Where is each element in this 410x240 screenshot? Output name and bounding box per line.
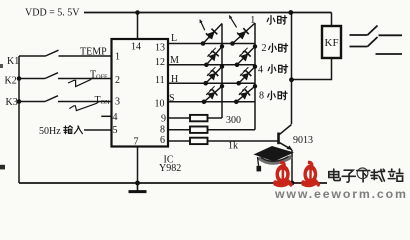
- wire right bus vertical: [291, 13, 293, 125]
- wire pin14 drop: [137, 13, 139, 40]
- svg-text:13: 13: [155, 43, 165, 54]
- svg-text:11: 11: [155, 75, 165, 86]
- label 2 hour shi: [279, 44, 288, 53]
- svg-text:14: 14: [131, 41, 141, 52]
- wire relay top branch: [331, 13, 333, 27]
- label 4 hour xiao: [268, 65, 276, 74]
- wire pin7 drop to ground: [137, 147, 139, 184]
- LED D1 emission arrow b: [206, 33, 211, 39]
- LED D6 (4h col2): [239, 67, 255, 84]
- watermark dian 电: [329, 169, 340, 180]
- wire relay contact 1 left lead: [350, 34, 368, 36]
- scan speck left edge 2: [0, 165, 5, 170]
- watermark tassel knob: [257, 166, 262, 172]
- IC U1 Y982 body: [112, 39, 169, 147]
- svg-text:M: M: [170, 55, 179, 66]
- resistor R3 (pin6) 1k: [190, 138, 208, 144]
- svg-text:1k: 1k: [228, 141, 238, 152]
- wire relay contact 2 left lead: [350, 46, 368, 48]
- node LED anode S1: [202, 100, 207, 105]
- switch contact 1 blade: [368, 26, 378, 36]
- wire pin6 to resistor R3: [168, 140, 190, 142]
- waveform symbol T_OFF sawtooth: [68, 79, 91, 86]
- LED D3 (2h col1): [206, 46, 222, 64]
- LED D2 emission arrow b: [237, 32, 242, 38]
- wire pin8 to resistor R2: [168, 129, 190, 131]
- wire transistor emitter drop: [291, 150, 293, 183]
- svg-text:3: 3: [115, 96, 120, 107]
- svg-text:8: 8: [160, 125, 165, 136]
- watermark registered mark: [357, 168, 368, 179]
- wire K1 switch lead: [19, 55, 46, 57]
- label 8 hour shi: [278, 91, 287, 100]
- node cathode c2-M: [253, 64, 257, 68]
- node VDD-pin14 junction: [135, 10, 140, 15]
- wire pin4 stub: [101, 115, 111, 117]
- wire K3 to pin3: [58, 101, 112, 103]
- watermark zi 子: [342, 170, 355, 182]
- wire 50Hz input to pin5: [84, 129, 112, 131]
- LED D5 (4h col1): [206, 67, 222, 84]
- wire row S pin10: [168, 101, 255, 103]
- svg-text:K1: K1: [7, 56, 19, 67]
- watermark cap head inner: [261, 157, 289, 162]
- wire resistor R2 to column 2: [208, 129, 256, 131]
- node LED anode H1: [203, 81, 208, 86]
- LED D4 (2h col2): [237, 46, 255, 64]
- watermark chong 2: [303, 162, 318, 184]
- wire relay contact 2 right lead: [376, 53, 403, 55]
- wire relay contact 1 right lead: [379, 34, 403, 36]
- wire row L pin13: [168, 43, 255, 45]
- svg-text:www.eeworm.com: www.eeworm.com: [274, 187, 408, 200]
- node K2 junction: [17, 76, 22, 81]
- svg-text:K3: K3: [6, 97, 18, 108]
- waveform symbol T_ON sawtooth: [69, 103, 97, 111]
- svg-text:VDD = 5. 5V: VDD = 5. 5V: [25, 8, 80, 19]
- watermark xia 下: [357, 171, 370, 182]
- svg-text:10: 10: [155, 98, 165, 109]
- wire relay bottom branch: [292, 58, 332, 80]
- node LED anode H2: [236, 81, 241, 86]
- node cathode c1-L: [220, 44, 224, 48]
- label 50Hz ru 入: [74, 126, 82, 134]
- watermark chong 1: [275, 162, 291, 184]
- transistor Q1 9013: [279, 125, 293, 151]
- svg-text:4: 4: [113, 112, 118, 123]
- svg-text:9: 9: [161, 113, 166, 124]
- wire K1 to pin1 TEMP: [59, 55, 112, 57]
- LED D1 (1h col1): [203, 24, 222, 44]
- node LED anode L2: [230, 41, 235, 46]
- wire pin9 to resistor R1: [168, 117, 190, 119]
- label 8 hour xiao: [268, 91, 276, 100]
- LED D2 emission arrow a: [229, 15, 236, 27]
- scan speck left edge 1: [0, 64, 3, 68]
- svg-text:2: 2: [115, 75, 120, 86]
- wire K3 switch lead: [19, 101, 45, 103]
- svg-text:7: 7: [134, 137, 139, 148]
- node LED anode M1: [204, 63, 209, 68]
- svg-text:K2: K2: [5, 75, 17, 86]
- svg-text:2: 2: [262, 43, 267, 54]
- watermark zhan 站: [388, 169, 403, 181]
- svg-text:300: 300: [226, 115, 241, 126]
- switch K1 blade: [46, 50, 59, 56]
- resistor R2 (pin8) 300: [190, 127, 208, 133]
- wire K2 to pin2: [58, 78, 112, 80]
- label 1 hour xiao: [267, 16, 275, 25]
- svg-text:1: 1: [250, 15, 255, 26]
- node VDD-bus junction: [288, 10, 293, 15]
- wire resistor R1 to column 1: [208, 117, 223, 119]
- svg-text:L: L: [171, 33, 177, 44]
- label 50Hz shu 输: [64, 126, 73, 134]
- svg-text:1: 1: [115, 52, 120, 63]
- wire resistor R3 to transistor base: [208, 140, 279, 142]
- watermark zai 载: [371, 169, 385, 181]
- node cathode c2-H: [253, 84, 257, 88]
- svg-text:50Hz: 50Hz: [39, 126, 61, 137]
- svg-text:Y982: Y982: [159, 163, 181, 174]
- switch K2 blade: [45, 73, 58, 79]
- wire left bus vertical K1-K3: [18, 56, 20, 183]
- node bus-relay junction: [289, 77, 294, 82]
- LED D7 (8h col1): [204, 86, 222, 102]
- svg-text:5: 5: [113, 125, 118, 136]
- switch K3 blade: [45, 96, 58, 102]
- svg-text:S: S: [169, 93, 175, 104]
- LED D2 (1h col2): [233, 23, 256, 44]
- node LED anode L1: [201, 41, 206, 46]
- resistor R1 (pin9): [190, 115, 208, 121]
- wire VDD rail: [84, 12, 332, 14]
- label 1 hour shi: [278, 16, 287, 25]
- node cathode c1-H: [220, 84, 224, 88]
- label 4 hour shi: [279, 65, 288, 74]
- node K3 junction: [17, 99, 22, 104]
- wire bottom ground rail: [19, 182, 327, 184]
- wire row M pin12: [168, 64, 255, 66]
- wire row H pin11: [168, 82, 255, 84]
- watermark tassel: [258, 157, 259, 166]
- svg-text:H: H: [171, 74, 178, 85]
- svg-text:KF: KF: [325, 37, 339, 49]
- LED D8 (8h col2): [236, 86, 255, 102]
- wire K2 switch lead: [19, 78, 45, 80]
- node LED anode M2: [235, 63, 240, 68]
- label 2 hour xiao: [269, 44, 277, 53]
- svg-text:9013: 9013: [293, 135, 313, 146]
- wire LED column 1: [221, 24, 223, 119]
- svg-text:12: 12: [155, 57, 165, 68]
- watermark cap board: [254, 146, 295, 162]
- svg-text:6: 6: [160, 135, 165, 146]
- wire LED column 2: [254, 23, 256, 130]
- svg-text:8: 8: [259, 90, 264, 101]
- watermark cap head band: [259, 157, 292, 163]
- LED D1 emission arrow a: [200, 20, 205, 31]
- svg-text:4: 4: [258, 65, 263, 76]
- node cathode c2-L: [253, 44, 257, 48]
- switch contact 2 blade: [368, 37, 378, 47]
- node pin7-ground junction: [135, 181, 140, 186]
- node LED anode S2: [234, 100, 239, 105]
- svg-text:TEMP: TEMP: [80, 46, 107, 57]
- ground symbol: [129, 183, 147, 192]
- relay coil KF box: [322, 26, 341, 58]
- node emitter-ground junction: [290, 181, 295, 186]
- node cathode c1-M: [220, 64, 224, 68]
